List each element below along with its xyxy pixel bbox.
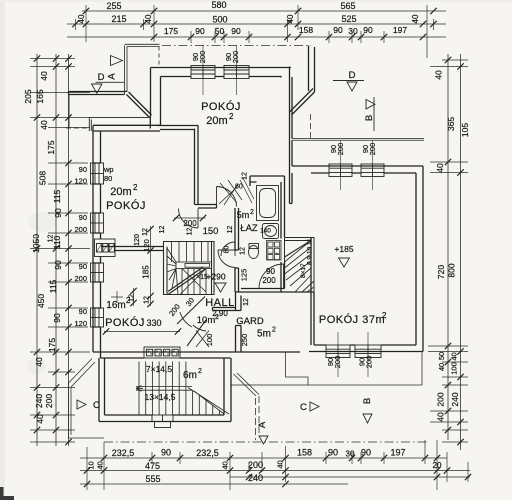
wc [249,246,259,259]
svg-text:40: 40 [437,363,446,371]
svg-text:100: 100 [205,334,214,347]
left extension ticks [30,59,90,443]
svg-text:40: 40 [221,461,230,469]
svg-text:240: 240 [34,394,44,408]
left dim labels (rotated) [23,71,63,424]
wall right room left [311,237,314,345]
top extension lines [76,5,434,58]
svg-text:40: 40 [34,357,44,367]
dim line row2 [67,23,446,25]
svg-text:200: 200 [74,225,87,234]
svg-text:200: 200 [183,219,197,228]
svg-text:90: 90 [79,165,87,174]
svg-text:720: 720 [436,265,446,279]
svg-text:115: 115 [52,189,62,203]
svg-text:13×14,5: 13×14,5 [145,392,176,402]
stair3 treads [139,362,186,416]
dim line row1 [82,10,446,12]
svg-text:6m: 6m [183,370,197,381]
wall 6m room bottom [99,415,231,422]
svg-text:12: 12 [144,296,151,304]
door toproom cross leaf [219,187,237,204]
wall gard left lower [236,326,242,353]
porch outline bottom-right [286,352,423,386]
svg-text:GARD: GARD [236,316,264,327]
window left-4 [91,308,104,327]
window left-3 [91,263,104,282]
svg-text:2: 2 [126,296,131,305]
svg-text:12: 12 [227,226,234,234]
svg-text:200: 200 [365,356,374,369]
svg-text:90: 90 [79,262,87,271]
svg-text:200: 200 [248,460,263,470]
bathtub [257,186,279,221]
roof dash-dot line top [162,45,311,47]
svg-text:10m: 10m [197,315,216,326]
wall top room bottom-left [157,126,199,130]
door leftroom leaf [197,209,199,229]
svg-text:8×17: 8×17 [300,263,307,278]
eave top-left horizontal [125,44,160,46]
stair3 treads right [193,390,220,415]
marker B top-right [366,97,375,131]
marker B bottom [363,414,372,423]
svg-text:185: 185 [142,265,151,279]
door toproom leaf [216,187,218,207]
top dim labels row2 [77,14,420,25]
svg-text:HALL: HALL [205,297,235,309]
svg-text:×15: ×15 [196,274,208,281]
bottom dim labels [87,448,442,485]
door hall wardrobe cross [196,331,209,348]
svg-text:80: 80 [104,174,112,183]
window rightbot-2 [355,345,381,358]
top tick slashes [72,8,436,40]
svg-text:12: 12 [240,247,247,255]
door rightroom arc [259,264,284,289]
svg-text:2: 2 [215,314,219,321]
wall left exterior [93,126,101,353]
wall top-left balcony [69,92,127,95]
svg-text:50: 50 [437,352,446,360]
svg-text:120: 120 [74,177,87,186]
marker A top-left [111,56,123,66]
door hall arc 1 [180,312,192,327]
roof dash-dot line bottom [104,441,428,443]
svg-text:2: 2 [382,311,387,320]
svg-text:20m: 20m [110,186,131,198]
svg-text:40: 40 [39,120,49,130]
marker C bottom-left [77,400,86,409]
svg-text:30: 30 [348,26,358,36]
door toproom arc [217,187,237,207]
svg-text:2: 2 [198,368,202,375]
eave bottom-left vertical [69,383,72,438]
wall left room top [93,125,161,131]
svg-text:115: 115 [48,279,58,293]
shower hatch [240,178,254,203]
svg-text:80: 80 [235,184,243,191]
scan corner artifact [0,487,14,500]
left wall window labels [74,165,87,328]
svg-text:2: 2 [133,183,138,192]
svg-text:+185: +185 [334,244,353,254]
window top-2 [224,66,249,79]
wall 6m room left [99,358,105,422]
stair3 rails [136,387,192,391]
svg-text:80: 80 [224,246,231,254]
svg-text:90: 90 [53,208,63,218]
svg-text:150: 150 [203,226,219,237]
wall hall/gard vertical [236,292,242,311]
wall hall under [213,308,236,311]
stair1 cross [180,269,206,295]
washbasin [263,224,279,239]
svg-text:B: B [362,398,373,404]
svg-text:475: 475 [145,461,160,471]
svg-text:5m: 5m [237,210,250,220]
svg-text:B: B [364,115,375,121]
svg-text:140: 140 [260,228,271,235]
right dim labels (rotated) [434,70,471,422]
svg-text:90: 90 [79,307,87,316]
window righttop-1 [329,164,352,177]
terrace edge line top-right [292,139,424,141]
svg-text:120: 120 [134,234,141,246]
wall right room right [416,166,423,352]
diagonal top-right [290,89,315,115]
wall top-right notch [309,46,315,93]
svg-text:158: 158 [299,25,313,35]
svg-text:16m: 16m [106,300,125,311]
svg-text:200: 200 [262,276,276,285]
stair3 cut diagonal [188,388,229,415]
dim door200 line [174,217,206,219]
svg-text:90: 90 [195,26,205,36]
stair2 box [285,238,315,293]
svg-text:125: 125 [240,269,249,282]
svg-text:232,5: 232,5 [196,448,219,458]
svg-text:40: 40 [276,460,285,468]
interior dim labels [129,172,277,346]
svg-text:90: 90 [266,267,275,276]
wall y205 hall/top-room [195,205,217,209]
door corridor 80 [221,242,235,256]
eave bottom-right chamfer [234,373,260,396]
svg-text:POKÓJ: POKÓJ [106,199,146,212]
door leftroom arc [179,209,199,229]
stair1 fan treads [167,248,178,295]
svg-text:40: 40 [286,14,295,23]
svg-text:232,5: 232,5 [112,448,135,458]
svg-text:40: 40 [411,14,420,23]
stair2 rail line [285,241,312,258]
svg-text:40: 40 [436,412,446,422]
svg-text:40: 40 [35,414,45,424]
diagonal top-left [127,92,152,118]
dim chain x150 vertical [150,226,152,306]
svg-text:90: 90 [361,448,371,458]
svg-text:7×14,5: 7×14,5 [146,364,173,374]
svg-text:POKÓJ: POKÓJ [201,100,241,113]
wall bathroom bottom y292 [235,289,314,293]
svg-text:12: 12 [142,228,149,236]
svg-text:240: 240 [450,392,460,406]
svg-text:90: 90 [328,448,338,458]
svg-text:C: C [93,400,100,411]
svg-text:158: 158 [297,448,312,458]
wall bathroom left [235,208,239,292]
svg-text:12: 12 [159,226,166,234]
svg-text:ŁAZ: ŁAZ [240,223,258,234]
eave left step [69,95,150,132]
svg-text:200: 200 [231,51,240,64]
stair1 bottom treads [182,269,206,295]
window top-1 [191,66,215,79]
svg-text:175: 175 [164,26,178,36]
svg-text:40: 40 [77,14,86,23]
wall right room bottom [309,345,423,352]
svg-text:555: 555 [145,474,160,484]
svg-text:D: D [98,72,105,83]
marker A bottom [259,436,268,444]
stair3 arrow [136,386,143,392]
wall bathroom right [281,176,285,292]
svg-text:90: 90 [333,25,343,35]
svg-text:POKÓJ: POKÓJ [105,316,145,329]
window left-2 [91,213,104,233]
svg-text:2: 2 [272,327,276,334]
svg-text:200: 200 [44,394,54,408]
door rightroom leaf [283,264,285,289]
eave bottom-left chamfer [69,359,96,388]
svg-text:A: A [257,421,268,428]
door hall leaf 2 [187,320,206,346]
svg-text:40: 40 [450,352,459,360]
svg-text:8 9 10 11: 8 9 10 11 [307,238,314,265]
marker D top-left [92,82,125,93]
svg-text:5m: 5m [257,329,271,340]
svg-text:175: 175 [47,338,57,352]
svg-text:wp: wp [103,165,114,174]
svg-text:330: 330 [146,318,161,328]
wall bottom long y352 [93,352,300,358]
cross mark 16m [111,291,123,303]
stair1 left wall [167,242,212,295]
svg-text:40: 40 [96,461,105,469]
dim 12 small left [133,288,135,306]
svg-text:240: 240 [248,473,263,483]
svg-text:120: 120 [74,319,87,328]
door cross marks bath entry [220,180,242,205]
door hall leaf 1 [177,297,205,325]
stair1 entry diagonal [168,267,205,295]
svg-text:20m: 20m [206,115,227,127]
svg-text:200: 200 [333,356,342,369]
svg-text:110: 110 [52,235,62,249]
svg-text:200: 200 [198,51,207,64]
svg-text:40: 40 [434,70,444,80]
svg-text:12: 12 [242,172,249,180]
wall divider left rooms y248 [101,247,164,251]
svg-text:90: 90 [79,213,87,222]
svg-text:450: 450 [36,294,46,308]
svg-text:30: 30 [346,450,355,459]
wall right room top [292,166,423,173]
svg-text:+290: +290 [206,272,225,282]
wall top room left [150,68,160,129]
wall 6m room right [224,358,231,422]
window rightbot-1 [326,345,350,358]
stair2 fan treads [285,241,315,293]
window righttop-2 [361,164,384,177]
entry door bottom [152,415,173,428]
svg-text:40: 40 [144,14,153,23]
door bath arc [218,250,236,268]
svg-text:10: 10 [87,461,96,469]
svg-text:40: 40 [435,163,445,173]
window extension stems [203,45,373,377]
stair1 mid rail [176,262,212,269]
svg-text:175: 175 [46,140,56,154]
stair1 top treads [172,242,209,263]
flue upper-left [95,239,116,257]
wall left-room right [195,125,199,204]
svg-text:40: 40 [39,71,49,81]
svg-text:90: 90 [231,26,241,36]
svg-text:2: 2 [250,209,254,216]
small arc bath entry [217,187,231,192]
svg-text:500: 500 [212,15,227,25]
marker D top-right [333,81,364,92]
svg-text:12: 12 [187,228,194,236]
svg-text:90: 90 [52,313,62,323]
svg-text:105: 105 [460,123,470,137]
svg-text:20: 20 [433,461,442,470]
roof dash vertical top-right [310,114,312,139]
flue lower [144,347,180,358]
eave bottom connector [69,437,105,439]
svg-text:508: 508 [38,171,48,185]
dim line row3 [67,36,446,38]
svg-text:C: C [300,402,307,413]
washer grid [267,241,282,261]
svg-text:565: 565 [340,1,355,11]
window labels rotated top wall [191,51,377,369]
svg-text:A: A [107,73,118,80]
svg-text:255: 255 [106,1,121,11]
marker C bottom-right [310,402,319,411]
svg-text:90: 90 [53,260,63,270]
svg-text:50: 50 [215,26,225,36]
door hall arc 2 [193,325,206,331]
svg-text:120: 120 [142,239,151,252]
wp 80 label [103,165,114,183]
svg-text:215: 215 [111,14,126,24]
svg-text:197: 197 [390,448,405,458]
svg-text:200: 200 [436,392,446,406]
svg-text:POKÓJ 37m: POKÓJ 37m [319,313,385,326]
svg-text:525: 525 [341,14,356,24]
svg-text:197: 197 [393,25,407,35]
wall top-room right x290 [290,67,293,204]
top dim labels row3 [164,25,407,36]
svg-text:250: 250 [240,334,249,347]
eave bottom-right vertical [256,396,260,440]
door bath leaf [218,249,235,251]
svg-text:800: 800 [447,263,457,277]
svg-text:1050: 1050 [31,234,41,253]
svg-text:12: 12 [243,298,250,306]
stair1 box [164,242,215,295]
wall bathroom top [250,176,285,186]
svg-text:580: 580 [211,0,226,10]
svg-text:D: D [349,70,356,81]
svg-text:205: 205 [23,89,33,103]
window left-1 [91,163,104,184]
top dim labels row1 [106,0,355,11]
porch edge left part [231,384,308,386]
svg-text:200: 200 [74,274,87,283]
svg-text:90: 90 [161,448,171,458]
svg-text:100: 100 [450,362,459,375]
svg-text:165: 165 [35,89,45,103]
left dim vertical lines [36,54,38,446]
wall top room top [151,68,292,78]
right dim vertical lines [447,54,449,440]
eave top-left vertical [125,46,128,95]
svg-text:90: 90 [363,25,373,35]
svg-text:2: 2 [229,112,234,121]
svg-text:365: 365 [446,117,456,131]
dim 330 line [104,331,180,333]
